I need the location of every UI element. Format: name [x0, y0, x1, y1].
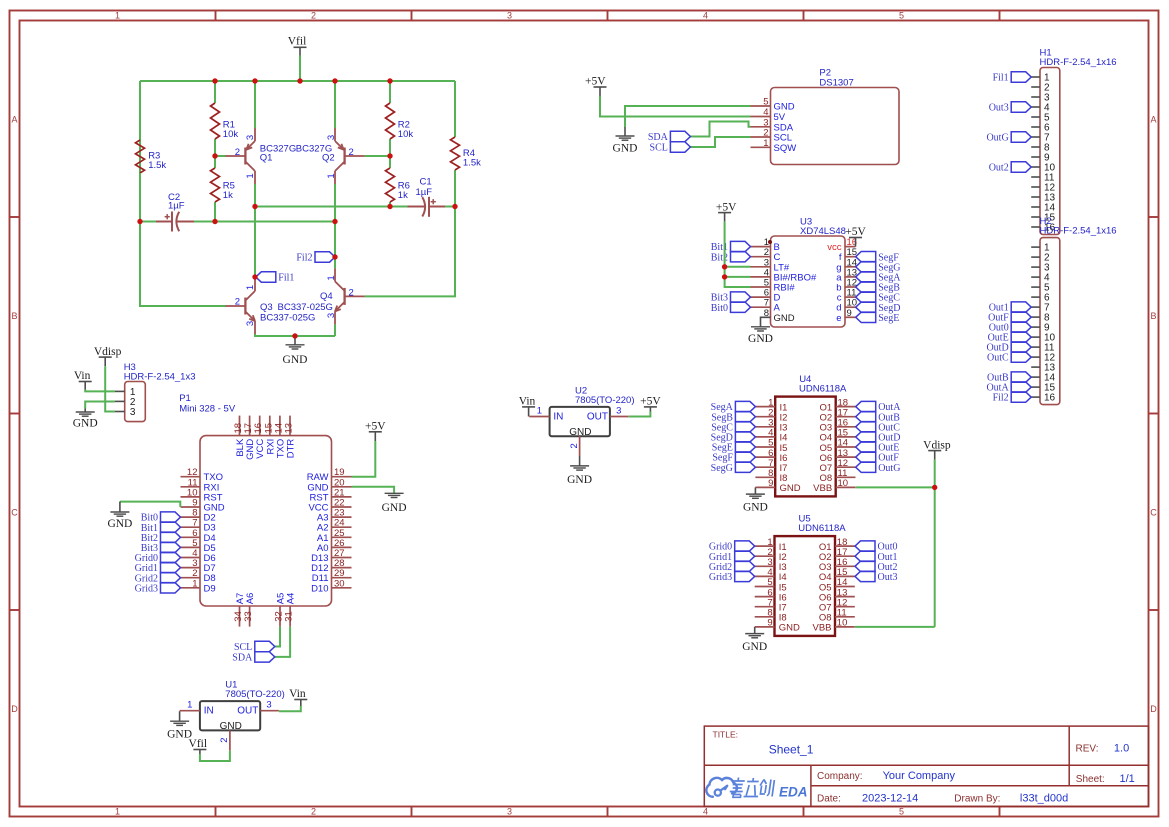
- svg-text:+5V: +5V: [585, 76, 606, 88]
- svg-text:+5V: +5V: [716, 201, 737, 213]
- svg-text:GND: GND: [73, 417, 98, 429]
- svg-text:10k: 10k: [223, 129, 239, 140]
- svg-text:Vin: Vin: [519, 396, 536, 408]
- svg-text:2: 2: [349, 287, 354, 298]
- svg-text:OutC: OutC: [987, 353, 1009, 364]
- svg-text:4: 4: [703, 10, 708, 20]
- svg-text:Company:: Company:: [817, 771, 863, 782]
- svg-text:GND: GND: [613, 143, 638, 155]
- svg-text:1µF: 1µF: [416, 187, 433, 198]
- svg-text:D9: D9: [204, 583, 216, 594]
- svg-text:7805(TO-220): 7805(TO-220): [225, 689, 284, 700]
- svg-text:1: 1: [115, 807, 120, 817]
- svg-text:SegE: SegE: [878, 313, 899, 324]
- svg-text:HDR-F-2.54_1x16: HDR-F-2.54_1x16: [1040, 57, 1117, 68]
- svg-text:GND: GND: [283, 354, 308, 366]
- svg-text:C1: C1: [420, 177, 432, 188]
- svg-text:SDA: SDA: [232, 653, 253, 664]
- svg-text:VBB: VBB: [812, 623, 831, 634]
- svg-text:GND: GND: [748, 333, 773, 345]
- svg-text:EDA: EDA: [779, 784, 808, 799]
- svg-text:HDR-F-2.54_1x3: HDR-F-2.54_1x3: [124, 371, 196, 382]
- svg-text:XD74LS48: XD74LS48: [800, 226, 846, 237]
- svg-text:31: 31: [284, 611, 295, 622]
- svg-text:D10: D10: [311, 583, 328, 594]
- svg-text:BC337-025G: BC337-025G: [260, 313, 315, 324]
- svg-text:Grid3: Grid3: [709, 572, 732, 583]
- svg-text:Out3: Out3: [878, 572, 898, 583]
- svg-text:IN: IN: [204, 706, 214, 717]
- svg-text:1: 1: [326, 173, 337, 178]
- svg-text:SQW: SQW: [774, 143, 797, 154]
- svg-text:Fil2: Fil2: [296, 253, 312, 264]
- svg-text:2: 2: [349, 147, 354, 158]
- svg-text:GND: GND: [107, 518, 132, 530]
- svg-text:+5V: +5V: [845, 226, 866, 238]
- svg-text:1: 1: [245, 173, 256, 178]
- svg-text:A4: A4: [286, 593, 297, 605]
- svg-text:5: 5: [899, 807, 904, 817]
- svg-text:VBB: VBB: [813, 483, 832, 494]
- svg-text:2: 2: [235, 297, 240, 308]
- svg-text:SCL: SCL: [234, 642, 252, 653]
- svg-text:10: 10: [837, 618, 848, 629]
- svg-text:Vfil: Vfil: [189, 738, 208, 750]
- svg-text:D: D: [1150, 704, 1157, 714]
- svg-text:e: e: [836, 313, 841, 324]
- svg-text:l33t_d00d: l33t_d00d: [1020, 793, 1068, 805]
- svg-text:10k: 10k: [398, 129, 414, 140]
- svg-text:Q2: Q2: [322, 153, 335, 164]
- svg-text:Fil2: Fil2: [993, 393, 1009, 404]
- svg-text:SegG: SegG: [711, 463, 733, 474]
- svg-text:9: 9: [767, 618, 772, 629]
- svg-text:1k: 1k: [398, 190, 408, 201]
- svg-text:GND: GND: [743, 502, 768, 514]
- svg-text:+5V: +5V: [365, 421, 386, 433]
- svg-text:3: 3: [266, 700, 271, 711]
- svg-text:A: A: [1150, 114, 1156, 124]
- svg-text:Out2: Out2: [989, 163, 1009, 174]
- svg-text:9: 9: [768, 478, 773, 489]
- svg-text:Mini 328 - 5V: Mini 328 - 5V: [179, 403, 236, 414]
- svg-text:BC337-025G: BC337-025G: [278, 302, 333, 313]
- svg-text:C: C: [1150, 507, 1157, 517]
- svg-text:HDR-F-2.54_1x16: HDR-F-2.54_1x16: [1040, 225, 1117, 236]
- svg-text:3: 3: [616, 405, 621, 416]
- svg-text:UDN6118A: UDN6118A: [798, 523, 846, 534]
- svg-text:IN: IN: [553, 411, 563, 422]
- svg-text:+5V: +5V: [640, 396, 661, 408]
- svg-text:3: 3: [507, 10, 512, 20]
- svg-text:1/1: 1/1: [1120, 773, 1135, 785]
- svg-text:8: 8: [764, 308, 769, 319]
- svg-text:1k: 1k: [223, 190, 233, 201]
- svg-text:B: B: [1150, 311, 1156, 321]
- svg-text:1: 1: [537, 405, 542, 416]
- svg-text:OUT: OUT: [587, 411, 608, 422]
- svg-text:2: 2: [311, 10, 316, 20]
- svg-text:SDA: SDA: [648, 132, 669, 143]
- svg-text:1: 1: [192, 578, 197, 589]
- svg-text:Vin: Vin: [74, 370, 91, 382]
- svg-text:1.0: 1.0: [1114, 743, 1129, 755]
- svg-text:16: 16: [1044, 393, 1056, 404]
- svg-text:A6: A6: [245, 593, 256, 605]
- svg-text:Sheet_1: Sheet_1: [769, 743, 814, 757]
- svg-text:1.5k: 1.5k: [148, 160, 166, 171]
- svg-text:1: 1: [187, 700, 192, 711]
- svg-text:Vin: Vin: [289, 688, 306, 700]
- svg-text:13: 13: [284, 423, 295, 434]
- svg-text:2: 2: [569, 443, 580, 448]
- svg-text:SCL: SCL: [650, 143, 668, 154]
- svg-text:1µF: 1µF: [168, 201, 185, 212]
- svg-text:2023-12-14: 2023-12-14: [862, 793, 918, 805]
- svg-text:C: C: [11, 507, 18, 517]
- svg-text:3: 3: [507, 807, 512, 817]
- svg-text:GND: GND: [567, 474, 592, 486]
- svg-text:1: 1: [763, 138, 768, 149]
- svg-text:30: 30: [334, 578, 345, 589]
- svg-text:Drawn By:: Drawn By:: [954, 794, 1000, 805]
- svg-text:1: 1: [115, 10, 120, 20]
- svg-text:B: B: [11, 311, 17, 321]
- svg-text:DS1307: DS1307: [819, 77, 853, 88]
- svg-text:OutG: OutG: [878, 463, 900, 474]
- svg-text:Date:: Date:: [817, 794, 841, 805]
- svg-text:TITLE:: TITLE:: [713, 730, 739, 740]
- svg-text:7805(TO-220): 7805(TO-220): [575, 395, 635, 406]
- svg-text:Fil1: Fil1: [993, 73, 1009, 84]
- svg-text:1: 1: [245, 285, 256, 290]
- svg-text:A: A: [11, 114, 17, 124]
- svg-text:GND: GND: [382, 502, 407, 514]
- svg-text:5: 5: [899, 10, 904, 20]
- svg-text:2: 2: [311, 807, 316, 817]
- svg-text:DTR: DTR: [286, 439, 297, 459]
- svg-text:REV:: REV:: [1076, 744, 1099, 755]
- svg-text:GND: GND: [774, 102, 795, 113]
- svg-text:GND: GND: [742, 641, 767, 653]
- svg-text:D: D: [11, 704, 18, 714]
- svg-text:OutG: OutG: [986, 133, 1008, 144]
- svg-text:2: 2: [219, 737, 230, 742]
- svg-text:4: 4: [703, 807, 708, 817]
- svg-text:3: 3: [245, 321, 256, 326]
- svg-text:2: 2: [235, 147, 240, 158]
- svg-text:OUT: OUT: [237, 706, 258, 717]
- svg-text:3: 3: [326, 135, 337, 140]
- svg-text:Q1: Q1: [260, 153, 273, 164]
- svg-text:3: 3: [245, 135, 256, 140]
- svg-text:Fil1: Fil1: [278, 273, 294, 284]
- svg-text:1.5k: 1.5k: [463, 158, 481, 169]
- svg-text:UDN6118A: UDN6118A: [799, 384, 847, 395]
- svg-text:Bit0: Bit0: [711, 303, 728, 314]
- svg-text:Vdisp: Vdisp: [923, 439, 951, 451]
- svg-text:Grid3: Grid3: [135, 583, 158, 594]
- svg-text:1: 1: [326, 275, 337, 280]
- svg-text:10: 10: [838, 478, 849, 489]
- svg-text:3: 3: [130, 407, 136, 418]
- svg-text:Q4: Q4: [320, 291, 333, 302]
- svg-text:33: 33: [243, 611, 254, 622]
- svg-text:5: 5: [763, 97, 768, 108]
- svg-text:GND: GND: [780, 483, 801, 494]
- svg-text:Out3: Out3: [989, 103, 1009, 114]
- svg-text:Vfil: Vfil: [288, 36, 307, 48]
- svg-text:GND: GND: [779, 623, 800, 634]
- svg-text:3: 3: [326, 313, 337, 318]
- svg-text:Vdisp: Vdisp: [94, 346, 122, 358]
- svg-text:GND: GND: [774, 313, 795, 324]
- svg-text:Sheet:: Sheet:: [1076, 774, 1105, 785]
- svg-text:Your Company: Your Company: [883, 770, 956, 782]
- svg-text:9: 9: [847, 308, 852, 319]
- svg-text:Q3: Q3: [260, 302, 273, 313]
